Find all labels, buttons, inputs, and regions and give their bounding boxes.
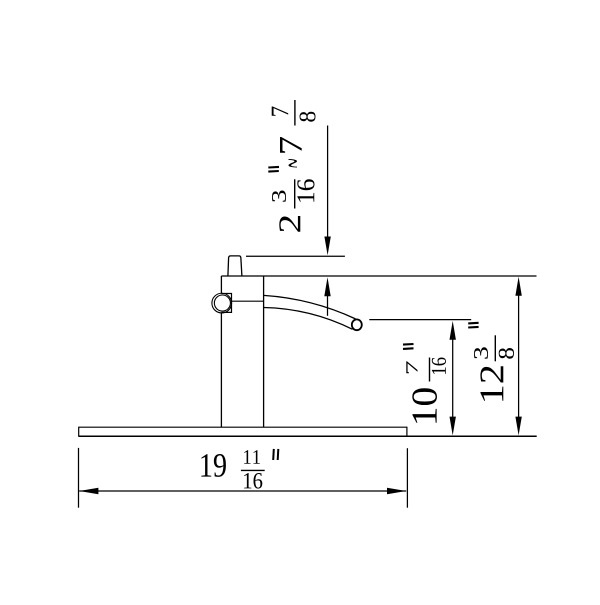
column left wire [220,312,222,427]
dim line G (19 11/16) [79,490,406,492]
spout upper curve [264,295,356,319]
arrowhead G right [387,488,406,494]
text T4 frac num 11 [244,450,260,464]
text T1 frac den 16 (rotated) [297,179,314,202]
arrowhead G left [79,488,98,494]
handle bracket [221,294,231,313]
text T3 main 12 (rotated) [480,366,503,400]
T4 inch marks [272,449,275,460]
text T1 frac den 8 (rotated) [300,112,316,122]
text T1 tilde (rotated) [288,159,296,168]
text T4 main 19 [201,454,226,477]
column right wire [263,276,265,427]
base plate bottom edge + extension line F [79,435,537,437]
head left edge [220,276,222,294]
spout lower curve [264,308,353,330]
T3 inch marks [468,322,478,325]
base plate right edge [406,427,408,437]
arrowhead 2 up at line B [324,277,330,296]
extension line C (spout tip level) [369,319,471,321]
dim arrow 1 shaft (down arrow to line A) [327,126,329,241]
text T1 main 7 (rotated) [280,137,302,153]
dim line D (10 7/16) [452,336,454,420]
head bottom edge [232,300,264,302]
arrowhead D bottom [450,417,456,436]
head top edge + extension line B [221,275,536,277]
arrowhead E bottom [515,417,521,436]
text T1 frac num 7 (rotated) [272,106,288,115]
text T4 frac den 16 [244,473,262,489]
extension line A (cap top level) [246,255,345,257]
arrowhead 1 down at line A [324,237,330,256]
handle inner circle [214,295,230,311]
T1 inch marks [268,166,279,169]
T1 fraction bar 3/16 [294,179,296,208]
spout tip ellipse [352,319,362,330]
text T2 main 10 (rotated) [412,388,437,423]
dim line E (12 3/8) [518,292,520,420]
text T2 frac num 7 (rotated) [406,361,417,373]
arrowhead E top [515,277,521,296]
dim arrow 2 shaft (up arrow to line B) [327,294,329,316]
base plate left edge [78,427,80,437]
text T2 frac den 16 (rotated) [432,357,446,373]
handle outer circle [212,293,232,313]
text T1 main 2 (rotated) [279,216,300,232]
text T3 frac den 8 (rotated) [499,348,514,359]
text T3 frac num 3 (rotated) [474,347,488,358]
T3 fraction bar 3/8 [494,335,496,361]
cap [228,256,242,276]
extension line G-right [406,448,408,508]
extension line G-left [78,448,80,508]
T2 fraction bar 7/16 [429,358,431,382]
T4 fraction bar 11/16 [241,469,265,471]
arrowhead D top [450,321,456,340]
text T1 frac num 3 (rotated) [272,191,286,202]
T2 inch marks [403,343,414,346]
base plate top edge [79,426,407,428]
T1 fraction bar 7/8 [294,100,296,126]
